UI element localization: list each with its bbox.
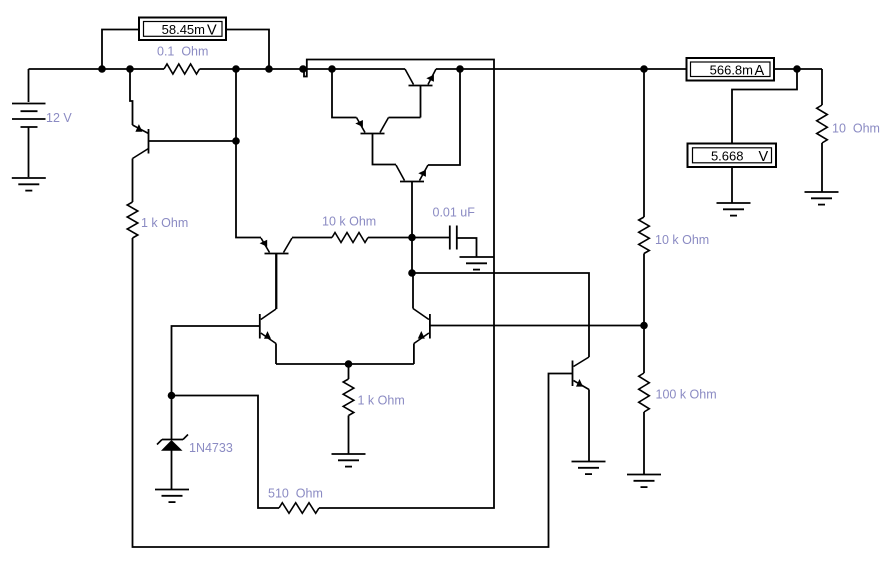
resistor R1 1 k Ohm (Q1 collector) [127,202,138,238]
svg-text:V: V [207,23,217,39]
wire node273 down to Q7 collector [412,273,414,309]
node dot 236 (sense output) [232,65,240,73]
svg-text:V: V [759,149,769,165]
svg-text:12 V: 12 V [46,111,72,125]
svg-text:10 k Ohm: 10 k Ohm [322,215,376,229]
resistor 0.1 Ohm current sense [164,64,200,74]
node dot 644/325.5 [640,322,648,330]
ground for battery [12,177,46,191]
svg-text:566.8m: 566.8m [710,63,753,78]
wire top rail from Q2 emitter to ammeter [436,68,686,70]
transistor Q3 middle PNP [332,69,421,165]
transistor Q4 driver NPN [396,69,460,238]
node dot 797 (voltmeter M3 tap) [793,65,801,73]
node dot 460 (output node) [456,65,464,73]
wire from ammeter to load [774,68,822,70]
transistor Q5 error amp load PNP [260,238,332,310]
capacitor C1 0.01 uF [412,226,477,257]
node dot zener 171.5/395.5 [168,392,176,400]
ground for divider [627,475,661,488]
node dot 644 (divider rail tap) [640,65,648,73]
svg-text:510 Ohm: 510 Ohm [268,487,323,501]
resistor R5 10 k Ohm (divider top) [639,217,650,254]
ground for load [805,192,839,205]
transistor Q2 top pass PNP [405,69,436,118]
wire vertical node236 to Q5 emitter [236,69,261,238]
wire node237 to node273 [411,238,413,274]
ground for Q8 emitter [572,462,606,475]
ground for zener [155,490,189,503]
svg-text:10 Ohm: 10 Ohm [832,122,880,136]
node dot 236/141 (Q1 base junction) [232,137,240,145]
ammeter M2 566.8m A [687,58,775,81]
node dot 269 (voltmeter right tap) [265,65,273,73]
resistor R3 1 k Ohm (diff tail) [348,364,350,379]
svg-text:1 k Ohm: 1 k Ohm [358,394,405,408]
ground for diff tail [332,454,366,467]
transistor Q6 diff pair left NPN [172,254,277,396]
resistor R2 10 k Ohm (compensation) [332,233,368,243]
resistor R4 510 Ohm [279,503,319,514]
svg-text:A: A [755,63,765,79]
svg-text:0.01 uF: 0.01 uF [433,206,476,220]
node dot 303 (loop tap) [299,65,307,73]
wire node273 to Q8 collector [412,273,589,357]
node dot 412/237 [408,234,416,242]
svg-text:58.45m: 58.45m [162,22,205,37]
wire diff emitters joined [276,363,414,365]
right rail from dot644 down [643,69,645,217]
node dot 102 (voltmeter left tap) [98,65,106,73]
node dot 332 (Q3 emitter tap) [328,65,336,73]
wire top rail from battery to sense resistor [29,68,165,70]
battery V1 12V [12,69,46,177]
wire loop: dot303 up over to right side down through 510 Ohm to zener node [304,60,494,509]
svg-text:5.668: 5.668 [711,149,744,164]
voltmeter M3 5.668 V across load [688,69,798,203]
svg-text:0.1 Ohm: 0.1 Ohm [157,45,208,59]
svg-text:100 k Ohm: 100 k Ohm [656,388,717,402]
node dot 348.5/364 [345,360,353,368]
transistor Q1 current-limit PNP [130,69,236,202]
ground for capacitor [460,257,494,270]
zener diode D1 1N4733 [157,396,188,490]
svg-text:10 k Ohm: 10 k Ohm [655,233,709,247]
voltmeter M1 58.45m V across sense resistor [102,18,269,70]
transistor Q8 feedback buffer NPN [573,357,590,461]
resistor R6 100 k Ohm (divider bottom) [639,373,650,412]
node dot 130 (Q1 emitter tap) [126,65,134,73]
svg-text:1 k Ohm: 1 k Ohm [141,216,188,230]
transistor Q7 diff pair right NPN [413,309,644,365]
node dot 412/273 [408,269,416,277]
wire sense resistor to Q2 collector [200,68,406,70]
svg-text:1N4733: 1N4733 [189,441,233,455]
wire R1 bottom long run to Q8 base [133,238,573,547]
resistor Rload 10 Ohm [821,69,823,105]
ground for voltmeter M3 [717,203,751,216]
